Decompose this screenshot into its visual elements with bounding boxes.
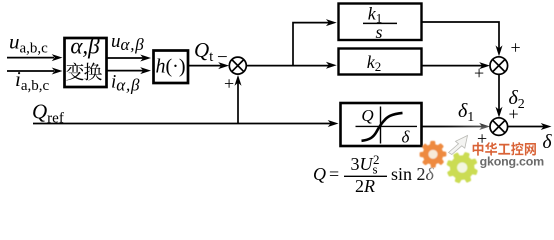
decorative glow [428, 128, 554, 192]
wire k2 output [422, 65, 484, 67]
svg-text:iα,β: iα,β [111, 72, 140, 95]
block h(.) reactive power calc [154, 51, 189, 84]
svg-text:2R: 2R [355, 176, 375, 195]
wire branch up to k1/s [293, 23, 330, 66]
summing junction S3 [490, 118, 508, 136]
wire Q_ref [33, 123, 331, 125]
saturation vertical axis [380, 107, 382, 144]
summing junction S1 [229, 57, 246, 74]
svg-text:Q: Q [361, 106, 373, 125]
wire u a,b,c input [7, 57, 54, 59]
svg-text:α,β: α,β [70, 33, 100, 58]
wire delta_2 down [498, 74, 500, 112]
svg-text:+: + [224, 74, 234, 94]
wire delta_1 [422, 126, 484, 128]
block saturation Q(delta) [341, 103, 422, 146]
logo gear orange [421, 142, 445, 166]
svg-text:−: − [217, 47, 228, 68]
wire S1 output to k2 [246, 65, 330, 67]
svg-text:+: + [511, 38, 521, 58]
wire k1/s output [422, 22, 500, 50]
block gain k2 [339, 49, 422, 75]
wire delta output [508, 126, 544, 128]
logo text zhonghua gongkong wang [473, 142, 484, 155]
wire i_alpha,beta [107, 70, 143, 72]
wire i a,b,c input [7, 70, 54, 72]
svg-text:+: + [509, 104, 519, 124]
svg-text:δ: δ [543, 132, 553, 153]
block integrator k1/s [339, 4, 422, 41]
wire Q_t [188, 65, 221, 67]
svg-text:uα,β: uα,β [111, 31, 145, 54]
saturation curve [362, 113, 403, 141]
svg-text:h(·): h(·) [156, 55, 186, 77]
svg-text:3Us2: 3Us2 [351, 152, 380, 177]
summing junction S2 [490, 57, 508, 75]
logo gear green [448, 153, 476, 181]
block alpha-beta transform [65, 38, 107, 87]
svg-text:+: + [474, 63, 484, 83]
wire u_alpha,beta [107, 57, 143, 59]
saturation horizontal axis [356, 125, 418, 127]
svg-text:s: s [375, 22, 382, 42]
svg-text:gkong.com: gkong.com [480, 155, 544, 169]
svg-text:δ: δ [402, 128, 411, 147]
wire Q_ref feedback up [237, 81, 239, 124]
logo arrow [449, 136, 468, 155]
